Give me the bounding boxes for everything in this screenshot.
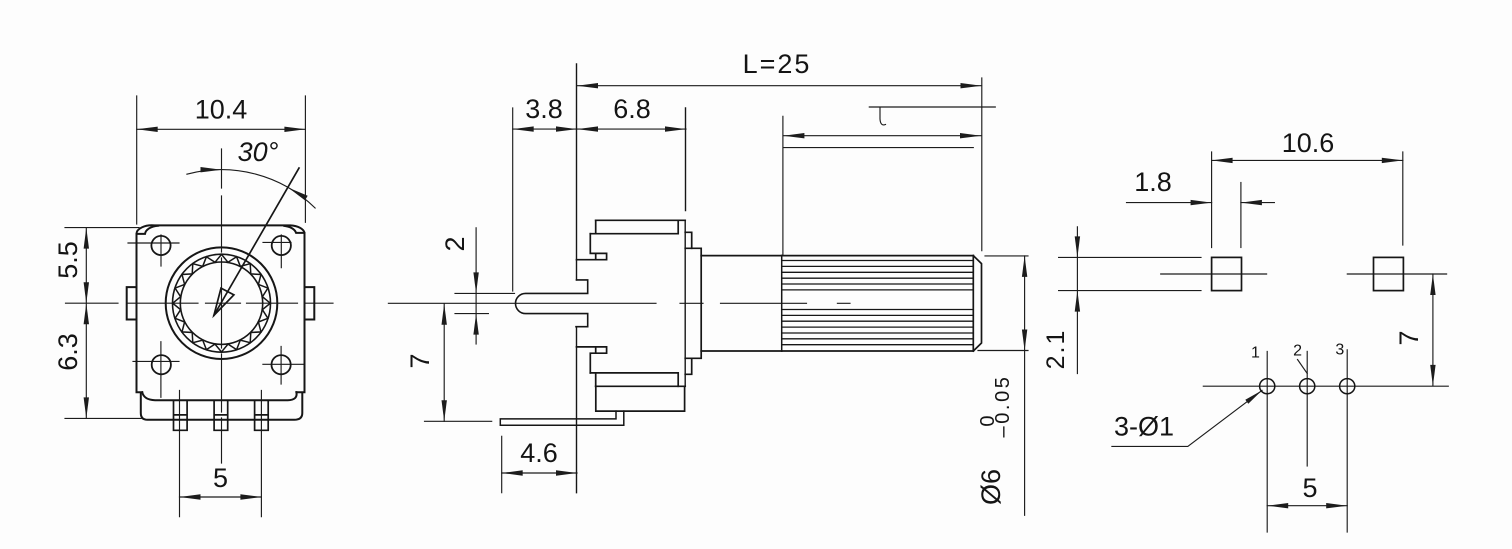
- pin row line: [1203, 385, 1448, 387]
- dimension 5.5/6.3 line: [85, 228, 87, 419]
- shaft flat reference line: [783, 147, 973, 149]
- svg-text:3-Ø1: 3-Ø1: [1114, 412, 1174, 442]
- arrowheads 2: [473, 272, 478, 293]
- svg-text:3: 3: [1335, 342, 1344, 359]
- shaft flat length dimension line: [783, 135, 981, 137]
- arrowheads 5.5/6.3: [84, 228, 89, 249]
- svg-text:6.8: 6.8: [613, 94, 651, 124]
- arrowheads 7 (middle): [442, 304, 447, 325]
- arrowheads 7 (right): [1430, 274, 1435, 295]
- svg-text:10.4: 10.4: [195, 95, 248, 125]
- dimension dia6 extension lines: [978, 256, 1028, 351]
- dimension 1.8 extension line: [1240, 183, 1242, 248]
- dimension 2.1 line: [1076, 227, 1078, 374]
- dimension 3.8/6.8 line: [513, 128, 686, 130]
- front body top-left corner detail: [137, 226, 159, 234]
- pin 3 centerline: [1346, 350, 1348, 532]
- dimension dia6 line: [1024, 256, 1026, 515]
- arrowheads 6.8: [577, 126, 598, 131]
- knob knurl teeth: [173, 254, 271, 352]
- pad right: [1374, 257, 1404, 290]
- arrowheads 5 (front): [180, 494, 201, 499]
- arrowheads 10.4: [137, 127, 158, 132]
- front hole crosshair bottom-right: [263, 346, 304, 384]
- shaft smooth section: [701, 256, 782, 351]
- svg-text:6.3: 6.3: [53, 333, 83, 371]
- pin 1 centerline: [1266, 351, 1268, 532]
- front side tab right: [305, 287, 315, 319]
- arrowheads L=25: [577, 83, 598, 88]
- front pin 2: [214, 401, 228, 431]
- right view: pad row centerline: [1161, 273, 1447, 275]
- svg-text:3.8: 3.8: [525, 94, 563, 124]
- svg-text:L=25: L=25: [743, 49, 812, 79]
- front body outline: [136, 225, 304, 392]
- middle body front plate bottom: [577, 347, 607, 373]
- front mounting hole top-right: [272, 236, 291, 255]
- arrowheads 2.1: [1075, 236, 1080, 257]
- dimension 4.6 extension line: [501, 436, 503, 492]
- dimension 4.6 line: [502, 472, 577, 474]
- arrowheads 4.6: [502, 470, 523, 475]
- svg-text:5.5: 5.5: [53, 241, 83, 279]
- front base flange: [141, 393, 302, 420]
- dimension 7 (middle) line: [443, 304, 445, 422]
- middle body top strip: [590, 220, 678, 233]
- arrowheads 3.8: [513, 126, 534, 131]
- arrowheads 1.8: [1191, 200, 1212, 205]
- knob 30 deg diagonal line: [214, 168, 299, 315]
- pin slot (side view): [515, 280, 587, 327]
- dimension 3.8 extension line: [512, 108, 514, 291]
- dimension 10.4 extension lines: [137, 96, 306, 224]
- middle body front plate left edge: [576, 64, 578, 493]
- front view: horizontal centerline: [66, 302, 334, 304]
- pin 2 circle: [1300, 379, 1315, 394]
- svg-text:1.8: 1.8: [1134, 167, 1172, 197]
- svg-text:7: 7: [405, 353, 435, 368]
- svg-text:5: 5: [1302, 473, 1317, 503]
- shaft flat extension line left: [782, 116, 784, 255]
- dimension 2.1 extension lines: [1059, 257, 1201, 290]
- front body top-right corner detail: [284, 226, 304, 233]
- mounting ear top: [685, 232, 692, 248]
- dimension 5 (front) line: [180, 496, 262, 498]
- arrowheads shaft flat: [783, 133, 804, 138]
- shaft knurl lines: [782, 261, 973, 345]
- dimension L=25 right extension line: [981, 78, 983, 251]
- dimension 10.6 extension lines: [1212, 152, 1403, 248]
- shaft end: [973, 256, 981, 351]
- dimension 7 (right) line: [1432, 274, 1434, 386]
- svg-text:5: 5: [213, 463, 228, 493]
- svg-text:2.1: 2.1: [1042, 329, 1070, 370]
- front view: vertical centerline: [221, 149, 223, 463]
- knob pointer triangle: [214, 288, 234, 315]
- mounting ear bottom: [685, 358, 692, 374]
- pad left: [1212, 257, 1242, 290]
- pin 3 circle: [1340, 379, 1355, 394]
- svg-text:7: 7: [1394, 330, 1424, 345]
- svg-text:2: 2: [1293, 343, 1302, 360]
- front mounting hole bottom-left: [152, 355, 171, 374]
- middle view: horizontal centerline: [388, 302, 850, 304]
- front mounting hole bottom-right: [272, 355, 291, 374]
- front body bottom chamfers: [142, 392, 296, 400]
- front hole crosshair top-left: [128, 235, 179, 266]
- dimension 2 extension lines: [455, 293, 515, 313]
- knob outer circle: [166, 247, 278, 359]
- front hole crosshair top-right: [263, 235, 291, 268]
- dimension 7 (middle) extension line: [425, 420, 492, 422]
- dimension 5 (right) line: [1267, 505, 1347, 507]
- middle body lower block: [596, 386, 685, 411]
- dimension 2 line: [475, 228, 477, 344]
- pin 1 circle: [1260, 379, 1275, 394]
- svg-text:4.6: 4.6: [520, 438, 558, 468]
- knurl start line: [781, 256, 783, 351]
- bushing: [685, 248, 701, 358]
- bracket leg: [500, 411, 624, 425]
- shaft knurl bottom edge: [782, 350, 974, 352]
- svg-text:2: 2: [440, 236, 470, 251]
- svg-text:30°: 30°: [238, 137, 279, 167]
- svg-text:Ø6: Ø6: [976, 469, 1006, 505]
- arrowhead leader 3-dia1: [1245, 390, 1262, 403]
- knob ring circle: [173, 254, 271, 352]
- svg-text:–0.05: –0.05: [992, 374, 1014, 437]
- dimension 30 deg arc: [187, 170, 315, 208]
- front side tab left: [127, 287, 137, 319]
- dimension 5 (front) extension lines: [180, 391, 262, 517]
- front pin 1: [174, 401, 188, 431]
- middle body right edge: [684, 108, 686, 386]
- middle body front plate top: [577, 234, 607, 260]
- arrowheads 10.6: [1212, 158, 1233, 163]
- leader line 3-dia1: [1112, 390, 1262, 446]
- dimension 1.8 lines: [1127, 202, 1275, 204]
- front pin 3: [255, 401, 269, 431]
- arrowheads 30 deg arc: [201, 167, 222, 172]
- pin 2 label leader: [1298, 360, 1308, 374]
- middle body bottom strip: [590, 373, 678, 386]
- arrowheads 5 (right): [1267, 503, 1288, 508]
- front hole crosshair bottom-left: [133, 342, 179, 398]
- flat flag symbol: [869, 107, 995, 125]
- dimension 10.4 line: [137, 128, 306, 130]
- knob inner circle: [180, 262, 262, 344]
- middle body top edge: [596, 219, 686, 221]
- arrowheads dia6: [1022, 256, 1027, 277]
- pin 2 centerline: [1306, 351, 1308, 466]
- svg-text:1: 1: [1251, 345, 1260, 362]
- shaft knurl top edge: [782, 255, 974, 257]
- middle body bottom edge: [596, 385, 686, 387]
- dimension 5.5/6.3 extension lines: [65, 228, 141, 419]
- svg-text:10.6: 10.6: [1282, 128, 1335, 158]
- dimension 10.6 line: [1212, 159, 1403, 161]
- dimension L=25 line: [577, 85, 982, 87]
- front mounting hole top-left: [151, 236, 170, 255]
